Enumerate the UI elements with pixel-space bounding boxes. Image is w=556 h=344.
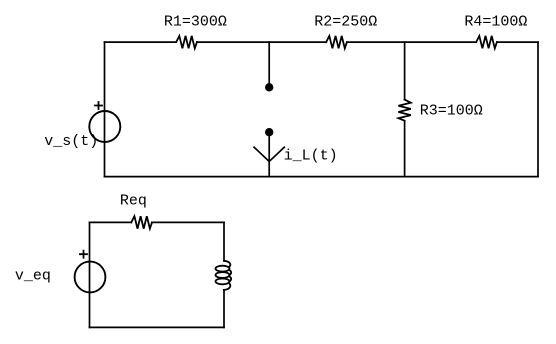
wire top-circuit bottom horizontal (105, 176, 539, 178)
node B (junction dot lower) (265, 128, 273, 136)
wire bottom-circuit bottom horizontal (90, 326, 225, 328)
svg-text:v_eq: v_eq (15, 268, 51, 285)
resistor R4 (476, 36, 497, 48)
wire bottom-circuit top segment left of Req (90, 221, 132, 223)
wire top segment between R1 and R2 (197, 41, 326, 43)
resistor Req (131, 216, 152, 228)
wire top segment between R2 and R4 (347, 41, 476, 43)
wire from node B down to bottom wire (268, 132, 270, 176)
svg-text:v_s(t): v_s(t) (44, 133, 98, 150)
svg-text:R2=250Ω: R2=250Ω (314, 14, 377, 31)
resistor R1 (176, 36, 197, 48)
wire top-circuit right vertical (537, 42, 539, 177)
plus sign of v_eq (80, 251, 87, 258)
wire from R3 to bottom wire (404, 121, 406, 177)
wire bottom-circuit left vertical (89, 222, 91, 327)
svg-text:R1=300Ω: R1=300Ω (164, 14, 227, 31)
wire from top wire to R3 (404, 42, 406, 100)
wire bottom-circuit right vertical lower (223, 290, 225, 328)
resistor R3 (vertical) (398, 100, 410, 121)
resistor R2 (326, 36, 347, 48)
plus sign of v_s(t) (95, 102, 102, 109)
svg-text:R3=100Ω: R3=100Ω (420, 103, 483, 120)
svg-text:i_L(t): i_L(t) (284, 147, 338, 164)
wire bottom-circuit right vertical upper (223, 222, 225, 260)
wire top segment right of R4 (497, 41, 538, 43)
wire bottom-circuit top segment right of Req (152, 221, 224, 223)
inductor L (216, 261, 232, 290)
voltage source v_s(t) circle (89, 111, 120, 142)
wire stub from top wire to node A (268, 42, 270, 87)
svg-text:Req: Req (120, 192, 147, 209)
wire top segment left of R1 (105, 41, 177, 43)
wire top-circuit left vertical (104, 42, 106, 177)
arrowhead of current i_L(t) (254, 147, 284, 161)
node A (junction dot upper) (265, 83, 273, 91)
voltage source v_eq circle (75, 262, 106, 293)
svg-text:R4=100Ω: R4=100Ω (464, 14, 527, 31)
